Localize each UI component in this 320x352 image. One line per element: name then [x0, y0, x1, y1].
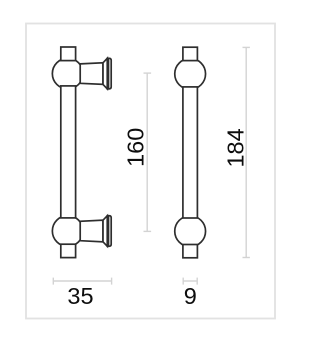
top flange chamfer	[103, 58, 107, 89]
top flange plate	[107, 58, 111, 89]
bar	[61, 86, 76, 218]
bottom ball	[52, 216, 83, 247]
RIGHT VIEW: handle front profile	[175, 47, 206, 258]
bar	[183, 87, 198, 218]
dim line 35	[53, 280, 111, 282]
dimension labels	[67, 128, 248, 309]
top flange divider	[108, 58, 110, 89]
svg-text:9: 9	[184, 283, 197, 309]
bottom flange divider	[108, 216, 110, 247]
dim line 160	[146, 73, 148, 231]
dim line 9	[183, 280, 197, 282]
bottom flange chamfer	[103, 216, 107, 247]
svg-text:35: 35	[67, 283, 93, 309]
bottom stub	[183, 245, 198, 258]
svg-text:184: 184	[222, 128, 248, 167]
bottom flange plate	[107, 216, 111, 247]
top ball	[52, 58, 83, 89]
frame border	[26, 24, 275, 319]
top ball	[175, 59, 206, 90]
top stub	[61, 47, 76, 61]
dim line 184	[245, 47, 247, 257]
dimension lines	[53, 47, 250, 284]
LEFT VIEW: handle side profile	[52, 47, 111, 258]
bottom cone	[80, 220, 103, 242]
bottom stub	[61, 244, 76, 257]
top stub	[183, 47, 198, 60]
bottom ball	[175, 216, 206, 247]
top cone	[80, 63, 103, 85]
svg-text:160: 160	[122, 128, 148, 167]
